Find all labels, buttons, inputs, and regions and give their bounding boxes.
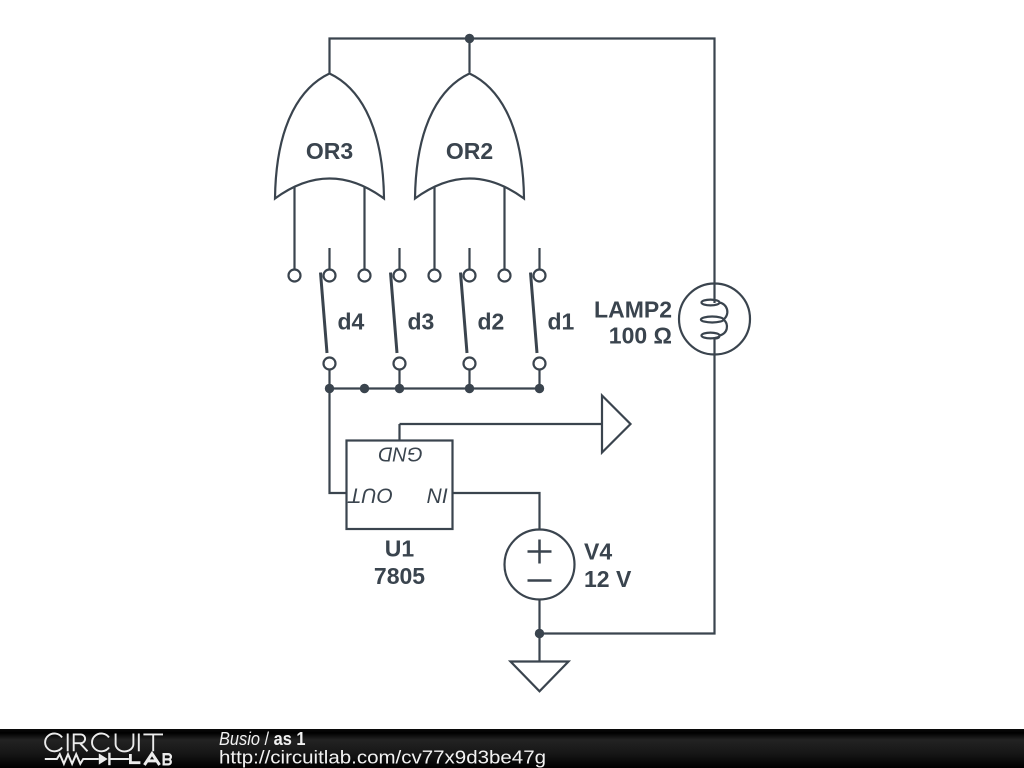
- svg-text:http://circuitlab.com/cv77x9d3: http://circuitlab.com/cv77x9d3be47g: [219, 748, 546, 768]
- d4 bottom wire: [328, 370, 330, 389]
- OR2 input pin B wire: [503, 187, 505, 270]
- d1 top stub wire: [538, 248, 540, 270]
- LAMP2 filament coil: [701, 300, 727, 339]
- V4 minus sign: [528, 579, 552, 582]
- d2 top terminal: [464, 270, 476, 282]
- d2 lever: [461, 273, 468, 354]
- voltage source V4: [505, 530, 632, 600]
- OR3 input pin B terminal: [359, 270, 371, 282]
- svg-text:d4: d4: [338, 309, 365, 335]
- junction: rail at d2: [465, 384, 474, 393]
- OR2 input pin A wire: [433, 187, 435, 270]
- OR3 body: [275, 74, 384, 199]
- d1 bottom wire: [538, 370, 540, 389]
- junction: rail at d4: [325, 384, 334, 393]
- svg-text:OR2: OR2: [446, 138, 493, 164]
- CircuitLab logo resistor zigzag: [45, 754, 99, 764]
- OR2 body: [415, 74, 524, 199]
- switch d1: [531, 248, 575, 389]
- OR3 input pin A wire: [293, 187, 295, 270]
- regulator U1 7805: [347, 424, 453, 589]
- wire: OR2 output stem: [468, 39, 470, 73]
- LAMP2 body circle: [679, 284, 750, 355]
- d3 bottom terminal: [394, 358, 406, 370]
- svg-text:Busio / as 1: Busio / as 1: [219, 729, 306, 749]
- CircuitLab logo wordmark LAB: [130, 754, 171, 765]
- d4 bottom terminal: [324, 358, 336, 370]
- svg-text:d1: d1: [548, 309, 575, 335]
- output flag arrow: [602, 396, 631, 453]
- wire: V4 minus to ground node: [538, 600, 540, 662]
- d3 top stub wire: [398, 248, 400, 270]
- OR2 input pin A terminal: [429, 270, 441, 282]
- wire: top rail from OR3 output to lamp top (net): [330, 39, 715, 304]
- d3 lever: [391, 273, 398, 354]
- lamp LAMP2: [594, 284, 750, 355]
- CircuitLab logo diode: [99, 753, 108, 764]
- OR2 input pin B terminal: [499, 270, 511, 282]
- OR3 input pin A terminal: [289, 270, 301, 282]
- OR3 input pin B wire: [363, 187, 365, 270]
- svg-text:LAMP2: LAMP2: [594, 297, 672, 323]
- svg-text:IN: IN: [426, 484, 448, 507]
- junction: rail at d3: [395, 384, 404, 393]
- junction: top rail / OR2 output: [465, 34, 474, 43]
- d3 bottom wire: [398, 370, 400, 389]
- svg-text:12 V: 12 V: [584, 566, 632, 592]
- d2 top stub wire: [468, 248, 470, 270]
- svg-text:GND: GND: [378, 443, 422, 465]
- d4 lever: [321, 273, 328, 354]
- switch d2: [461, 248, 505, 389]
- svg-text:V4: V4: [584, 539, 612, 565]
- or-gate OR3: [275, 74, 384, 282]
- wire: U1 IN to V4 plus: [453, 493, 540, 530]
- wire: rail to U1 OUT pin: [330, 389, 347, 494]
- CircuitLab logo wordmark CIRCUIT: [45, 734, 163, 752]
- svg-text:OUT: OUT: [347, 484, 394, 507]
- d1 top terminal: [534, 270, 546, 282]
- svg-text:d3: d3: [408, 309, 435, 335]
- d2 bottom terminal: [464, 358, 476, 370]
- switch d4: [321, 248, 365, 389]
- d3 top terminal: [394, 270, 406, 282]
- footer bar: [0, 729, 1024, 768]
- wire: bottom rail: [330, 387, 540, 389]
- d1 lever: [531, 273, 538, 354]
- U1 GND pin stem: [398, 424, 400, 441]
- wire: ground node to lamp bottom: [540, 337, 715, 634]
- junction: ground node: [535, 629, 544, 638]
- junction: rail mid: [360, 384, 369, 393]
- wire: U1 GND to output flag: [400, 423, 603, 425]
- svg-text:U1: U1: [385, 536, 415, 562]
- d4 top terminal: [324, 270, 336, 282]
- svg-text:OR3: OR3: [306, 138, 353, 164]
- V4 body circle: [505, 530, 575, 600]
- or-gate OR2: [415, 74, 524, 282]
- V4 plus sign: [528, 550, 552, 553]
- CircuitLab logo wire to LAB: [110, 758, 128, 760]
- svg-text:100 Ω: 100 Ω: [609, 323, 672, 349]
- ground symbol: [511, 662, 569, 692]
- d4 top stub wire: [328, 248, 330, 270]
- d2 bottom wire: [468, 370, 470, 389]
- junction: rail at d1: [535, 384, 544, 393]
- svg-text:d2: d2: [478, 309, 505, 335]
- d1 bottom terminal: [534, 358, 546, 370]
- switch d3: [391, 248, 435, 389]
- svg-text:7805: 7805: [374, 563, 425, 589]
- U1 body: [347, 441, 453, 530]
